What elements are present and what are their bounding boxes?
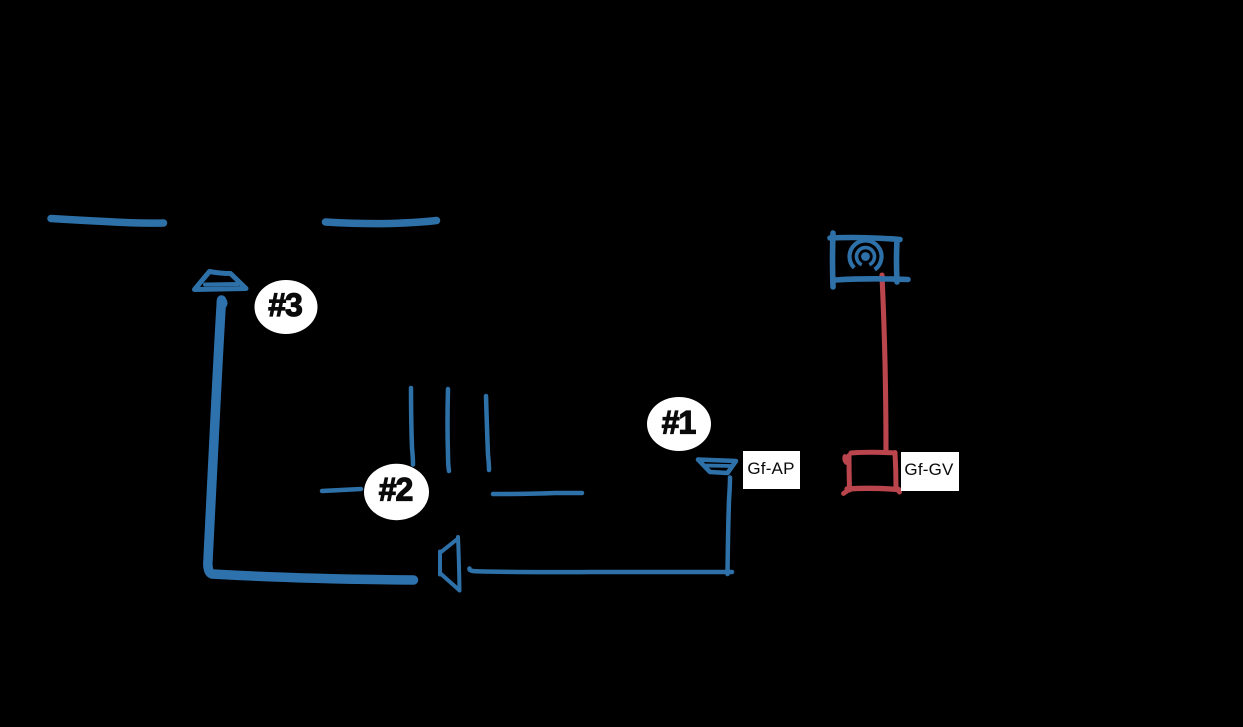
- svg-text:Gf-AP: Gf-AP: [747, 459, 794, 478]
- badge #3: [255, 280, 318, 334]
- label Gf-AP: [743, 451, 800, 489]
- svg-text:#1: #1: [662, 405, 696, 441]
- wire: horizontal run to AP #1: [469, 569, 732, 573]
- wall segment top-middle: [326, 221, 437, 224]
- badge #1: [647, 397, 711, 451]
- Gf-GV box (red square): [844, 452, 900, 493]
- svg-text:Gf-GV: Gf-GV: [904, 460, 954, 479]
- wall stub vertical 3: [486, 396, 489, 470]
- router box (blue rectangle): [830, 233, 908, 287]
- wall stub left of badge #2: [322, 489, 361, 491]
- wall stub vertical 2: [448, 389, 450, 471]
- label Gf-GV: [901, 452, 959, 491]
- router broadcast icon: [850, 240, 882, 269]
- wall stub vertical 1: [411, 388, 413, 465]
- wall stub right of badge #2: [493, 493, 582, 494]
- wall segment top-left: [51, 219, 164, 224]
- svg-text:#3: #3: [268, 287, 302, 323]
- badge #2: [364, 464, 429, 520]
- speaker icon (sideways trapezoid): [440, 537, 460, 591]
- wire: vertical run up to AP #1: [728, 478, 731, 575]
- AP icon #1 (inverted trapezoid funnel): [698, 460, 736, 474]
- svg-text:#2: #2: [379, 472, 413, 508]
- wire: red cable from router down to Gf-GV: [882, 275, 886, 452]
- AP icon #3 (trapezoid lamp): [195, 272, 247, 290]
- wire: thick wall polyline from #3 down and right: [208, 297, 414, 580]
